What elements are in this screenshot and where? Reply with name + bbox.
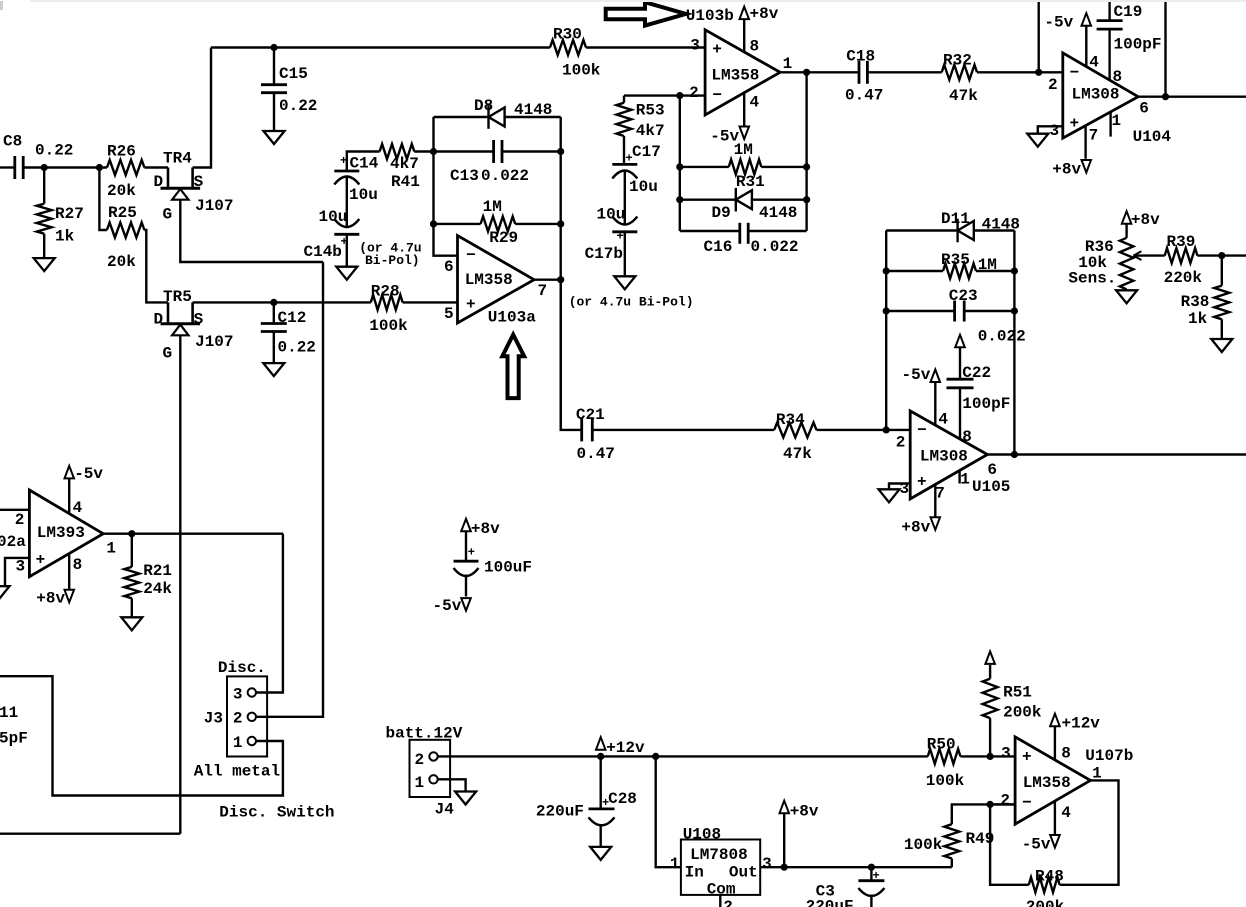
svg-text:R32: R32 [943,52,972,70]
svg-text:C15: C15 [279,65,308,83]
svg-text:2: 2 [689,84,699,102]
svg-text:D: D [154,173,164,191]
symbol thick up arrow [502,335,524,399]
resistor R49 [944,824,959,858]
capacitor 100uF plate [454,560,479,563]
junction U103b pin2 [676,92,683,99]
capacitor C18 [858,61,861,84]
wire box right vertical [560,117,562,430]
svg-text:-5v: -5v [1044,14,1073,32]
wire R51 stems [989,718,991,756]
svg-text:D9: D9 [712,204,731,222]
wire R31 left [680,166,729,168]
wire 100uF bottom stem [465,575,467,597]
power -5v arrow 100uF [461,598,471,611]
wire U103b pin8 stem [743,19,745,52]
wire C8 to R26 [23,166,107,168]
wire R29 left [434,223,481,225]
capacitor C21 [580,418,583,441]
resistor R28 [371,295,403,310]
wire wiper to R39 [1133,254,1164,256]
power +8v arrow R36 [1122,211,1132,224]
capacitor C14b curved plate [334,219,359,227]
op-amp U107b LM358 [1015,737,1090,824]
wire D11 top right [974,229,1015,231]
power +8v arrow 100uF [461,519,471,532]
svg-text:LM358: LM358 [711,66,759,84]
resistor R31 [729,159,762,174]
wire U102a pin3 hook [5,558,29,586]
svg-text:1M: 1M [734,141,753,159]
svg-text:+: + [36,551,46,569]
svg-text:Bi-Pol): Bi-Pol) [365,253,420,268]
wire U102a out down to J3 pin3 [257,534,283,693]
ground U102a pin3 partial [0,586,10,599]
wire arrow to C22 [959,347,961,379]
wire C3 below [870,895,872,907]
power -5v arrow U102a [65,466,75,479]
svg-text:+: + [917,473,927,491]
svg-text:3: 3 [1001,745,1011,763]
wire -5v vertical [1037,2,1039,72]
svg-text:C8: C8 [3,133,22,151]
connector J3 pin3 circle [248,688,256,696]
wire R38 to ground [1221,319,1223,339]
svg-text:-5v: -5v [433,597,462,615]
junction R35 right [1011,267,1018,274]
svg-text:+8v: +8v [471,520,500,538]
wire +12v rail [438,755,928,757]
capacitor C12 [261,322,287,325]
wire U103a out down to C21 [561,280,582,430]
potentiometer R36 10k [1120,238,1134,289]
ground below C28 [590,847,611,860]
connector J4 box [410,740,451,797]
svg-text:200k: 200k [1026,898,1065,907]
svg-text:3: 3 [233,686,243,704]
wire C23 left [886,310,955,312]
svg-text:6: 6 [444,258,454,276]
svg-text:+: + [873,869,880,883]
svg-text:2: 2 [896,434,906,452]
svg-text:+: + [1070,115,1080,133]
svg-text:(or 4.7u Bi-Pol): (or 4.7u Bi-Pol) [569,295,694,310]
svg-text:R27: R27 [55,205,84,223]
resistor R30 [550,40,586,55]
svg-text:10u: 10u [629,178,658,196]
junction C12 tap [270,299,277,306]
wire R21 stem [131,534,133,567]
junction +12v U108 [652,753,659,760]
wire C22 to pin8 [959,388,961,439]
wire R35 right [976,270,1014,272]
junction C13 right [557,148,564,155]
capacitor C22 [947,378,974,381]
svg-text:3: 3 [16,557,26,575]
junction R29 left [430,220,437,227]
svg-text:LM308: LM308 [920,447,968,465]
capacitor C17b plate [612,230,637,233]
power +12v arrow U107b [1050,714,1060,727]
wire C3 stem [870,867,872,881]
ground below C15 [264,131,285,144]
svg-text:4k7: 4k7 [390,155,419,173]
capacitor C17 plate [612,163,637,166]
svg-text:7: 7 [538,282,548,300]
power +8v arrow U105 [931,517,941,530]
wire C15 stem top [273,48,275,86]
junction R35 left [883,267,890,274]
wire U104 pin3 ground hook [1038,126,1063,133]
capacitor C13 [492,140,495,163]
resistor R29 [481,216,516,231]
wire R26 to TR4 drain [144,166,168,168]
svg-text:R35: R35 [941,251,970,269]
svg-text:U103a: U103a [488,309,536,327]
wire C14 to C14b [346,177,348,227]
svg-text:10u: 10u [597,206,626,224]
svg-text:8: 8 [1061,745,1071,763]
wire R53 to C17 [623,136,625,164]
wire R36 top stem [1125,224,1127,238]
svg-text:-5v: -5v [902,366,931,384]
svg-text:Disc. Switch: Disc. Switch [219,804,334,822]
wire U104 output [1138,95,1246,97]
svg-text:1k: 1k [55,228,75,246]
svg-text:2: 2 [723,898,733,907]
power -5v arrow U107b [1050,835,1060,848]
svg-text:R50: R50 [927,736,956,754]
wire U105 output [987,453,1246,455]
svg-text:4: 4 [73,499,83,517]
ground J4 pin1 [455,792,476,805]
wire output top vertical [1164,2,1166,97]
resistor R41 [380,144,415,159]
svg-text:47k: 47k [783,445,812,463]
power -5v arrow U105 [931,370,941,383]
svg-text:2: 2 [1048,76,1058,94]
svg-text:4148: 4148 [759,204,797,222]
wire D11 top left [886,229,957,231]
svg-text:4: 4 [938,411,948,429]
wire R31 right [761,166,806,168]
connector J4 pin2 circle [429,752,437,760]
wire D8 top right [505,116,561,118]
svg-text:+12v: +12v [1062,715,1101,733]
svg-text:+8v: +8v [750,5,779,23]
wire R41 to feedback box [414,150,433,152]
junction U105 pin2 box [883,426,890,433]
svg-text:D8: D8 [474,97,493,115]
svg-text:+8v: +8v [790,803,819,821]
svg-text:2: 2 [415,751,425,769]
wire TR5 gate down [179,336,181,834]
wire U105 pin4 stem [934,382,936,425]
svg-text:4: 4 [750,94,760,112]
svg-text:20k: 20k [107,182,136,200]
wire R48 to pin2 [990,804,1029,884]
svg-text:100k: 100k [369,317,408,335]
svg-text:6: 6 [1139,100,1149,118]
svg-text:24k: 24k [143,580,172,598]
svg-text:C13: C13 [450,167,479,185]
capacitor C15 [261,83,287,86]
svg-text:1M: 1M [483,198,502,216]
svg-text:U105: U105 [972,478,1010,496]
svg-text:3: 3 [762,855,772,873]
capacitor C14 plate [334,170,359,173]
symbol thick right arrow [606,2,686,25]
wire TR4 gate down and right [180,200,323,262]
junction U102a output R21 [128,530,135,537]
svg-text:R51: R51 [1003,684,1032,702]
junction C15 tap [270,44,277,51]
svg-text:220uF: 220uF [806,898,854,907]
junction R31 right [803,163,810,170]
wire D8 top left [434,116,489,118]
capacitor C16 [738,223,741,244]
diode D11 [956,219,958,243]
svg-text:R48: R48 [1035,868,1064,886]
svg-text:C17: C17 [632,143,661,161]
svg-text:−: − [1022,794,1032,812]
wire R25 stem [99,168,107,231]
capacitor 100uF curved plate [454,568,479,576]
svg-text:220k: 220k [1164,269,1203,287]
power +8v arrow U108 [780,801,790,814]
svg-text:G: G [163,205,173,223]
svg-text:+8v: +8v [36,589,65,607]
op-amp U105 LM308 [910,411,987,499]
wire D9 left [680,198,736,200]
wire R32 to U104 [977,71,1063,73]
svg-text:Disc.: Disc. [218,659,266,677]
svg-text:LM358: LM358 [465,271,513,289]
svg-text:+: + [712,41,722,59]
wire R49 top [952,804,1015,824]
svg-text:0.022: 0.022 [751,238,799,256]
connector J4 pin1 circle [429,775,437,783]
svg-text:+: + [617,230,624,244]
svg-text:LM358: LM358 [1023,774,1071,792]
wire C19 to pin8 [1108,29,1110,79]
svg-text:D: D [154,311,164,329]
wire TR4 source up to top rail [193,48,211,168]
wire C12 to ground [273,332,275,363]
op-amp U103b LM358 [705,30,780,115]
junction U103b output [803,69,810,76]
svg-text:100uF: 100uF [484,559,532,577]
wire R27 stem [43,168,45,204]
junction D9 left [676,196,683,203]
wire D9 right [752,198,807,200]
wire U103a output [534,279,561,281]
wire C19 top [1108,2,1110,21]
wire input to C8 [0,166,15,168]
junction R31 left [676,163,683,170]
power -5v arrow U103b [740,127,750,140]
wire U105 pin1 stub [958,471,960,484]
wire U104 pin1 stub [1109,111,1111,136]
transistor TR4 J107 [167,168,170,189]
wire C14 top stem [347,152,380,172]
svg-text:100k: 100k [904,836,943,854]
wire C13 right [502,150,561,152]
wire C13 left [434,150,494,152]
svg-text:+8v: +8v [1131,211,1160,229]
wire C21 to R34 [592,429,774,431]
svg-text:7: 7 [1089,127,1099,145]
ground below R27 [34,258,55,271]
connector J3 box [227,676,267,756]
junction R38 tap [1218,252,1225,259]
svg-text:0.47: 0.47 [577,445,615,463]
capacitor C8 [13,156,16,179]
wire U104 pin4 stem [1085,26,1087,67]
resistor R39 [1165,248,1198,263]
wire R38 stem [1221,256,1223,286]
junction D9 right [803,196,810,203]
svg-text:0.022: 0.022 [481,167,529,185]
svg-text:100k: 100k [926,772,965,790]
wire output vertical [805,72,807,231]
wire R53 stem [623,96,625,103]
svg-text:1: 1 [960,471,970,489]
junction C8/R27 [41,164,48,171]
wire J4 pin1 to ground [438,779,466,791]
wire U108 pin3 out [760,866,952,868]
svg-text:220uF: 220uF [536,803,584,821]
arrow to C23 net [955,335,965,348]
svg-text:1: 1 [415,774,425,792]
capacitor C14b plate [334,233,359,236]
junction R26/R25 [96,164,103,171]
svg-text:1: 1 [233,734,243,752]
svg-text:G: G [163,344,173,362]
power arrow above R51 [985,651,995,664]
svg-text:R38: R38 [1181,293,1210,311]
wire box left vertical [434,117,458,256]
power -5v arrow U104 [1082,13,1092,26]
wiper arrow R36 [1133,251,1141,260]
svg-text:8: 8 [750,38,760,56]
wire C23 right [964,310,1014,312]
resistor R26 [107,160,144,175]
resistor R50 [928,749,961,764]
wire D11 box right vertical [1013,231,1015,455]
svg-text:R26: R26 [107,143,136,161]
svg-text:C23: C23 [949,287,978,305]
svg-text:−: − [712,87,722,105]
svg-text:2: 2 [1000,791,1010,809]
svg-text:02a: 02a [0,533,26,551]
wire U107b pin4 stem [1054,801,1056,834]
capacitor C23 [953,301,956,322]
svg-text:20k: 20k [107,253,136,271]
svg-text:J107: J107 [195,197,233,215]
svg-text:1k: 1k [1188,310,1208,328]
wire U102a pin2 input [0,509,29,511]
wire R51 top stem [989,665,991,679]
svg-text:J107: J107 [195,333,233,351]
wire U108 pin2 stem [719,895,721,907]
svg-text:−: − [917,422,927,440]
svg-text:10u: 10u [349,186,378,204]
svg-text:10u: 10u [319,208,348,226]
power +8v arrow U103b [740,7,750,20]
junction U103a output [557,276,564,283]
ground U105 pin3 [879,489,900,502]
svg-text:TR4: TR4 [163,149,192,167]
svg-text:+8v: +8v [1052,160,1081,178]
svg-text:0.47: 0.47 [845,86,883,104]
svg-text:3: 3 [1050,122,1060,140]
wire C12 stem [273,302,275,323]
svg-text:8: 8 [73,556,83,574]
junction C13 left [430,148,437,155]
svg-text:+: + [466,296,476,314]
svg-text:C14b: C14b [304,243,342,261]
wire J3 pin2 to TR4 gate line [256,262,323,717]
svg-text:C22: C22 [962,364,991,382]
svg-text:R39: R39 [1167,233,1196,251]
wire R27 to ground [43,234,45,258]
wire R29 right [515,223,561,225]
svg-text:U107b: U107b [1085,747,1133,765]
capacitor C3 curved plate [858,888,884,896]
wire 100uF top stem [465,531,467,561]
junction R51 tap [987,753,994,760]
wire bottom left horizontal [0,833,180,835]
svg-text:D11: D11 [941,210,970,228]
svg-text:47k: 47k [949,87,978,105]
svg-text:R53: R53 [636,101,665,119]
capacitor C19 [1097,19,1123,22]
wire D11 box left vertical [885,231,887,430]
junction U107b pin2 [987,801,994,808]
power +12v arrow rail [596,737,606,750]
wire C18 to R32 [867,71,941,73]
svg-text:C28: C28 [608,790,637,808]
svg-text:In: In [685,863,704,881]
resistor R53 [617,103,632,136]
svg-text:Sens.: Sens. [1068,269,1116,287]
svg-text:R29: R29 [489,229,518,247]
svg-text:LM7808: LM7808 [690,846,748,864]
wire U102a output [103,533,283,535]
svg-text:R41: R41 [391,173,420,191]
svg-text:Out: Out [729,863,758,881]
svg-text:0.022: 0.022 [978,328,1026,346]
ground below C12 [263,363,284,376]
svg-text:6: 6 [987,461,997,479]
wire R25 to TR5 drain [144,230,168,302]
svg-text:11: 11 [0,704,18,722]
svg-text:2: 2 [15,511,25,529]
svg-text:1: 1 [106,539,116,557]
svg-text:−: − [466,247,476,265]
svg-text:All metal: All metal [194,763,280,781]
resistor R48 [1029,877,1060,892]
top border artifact [30,0,1246,2]
junction C23 right [1011,307,1018,314]
svg-text:200k: 200k [1003,703,1042,721]
svg-text:−: − [1070,64,1080,82]
svg-text:+: + [468,546,475,560]
svg-text:R30: R30 [553,26,582,44]
resistor R38 [1214,286,1229,320]
capacitor C17 curved plate [612,171,637,179]
